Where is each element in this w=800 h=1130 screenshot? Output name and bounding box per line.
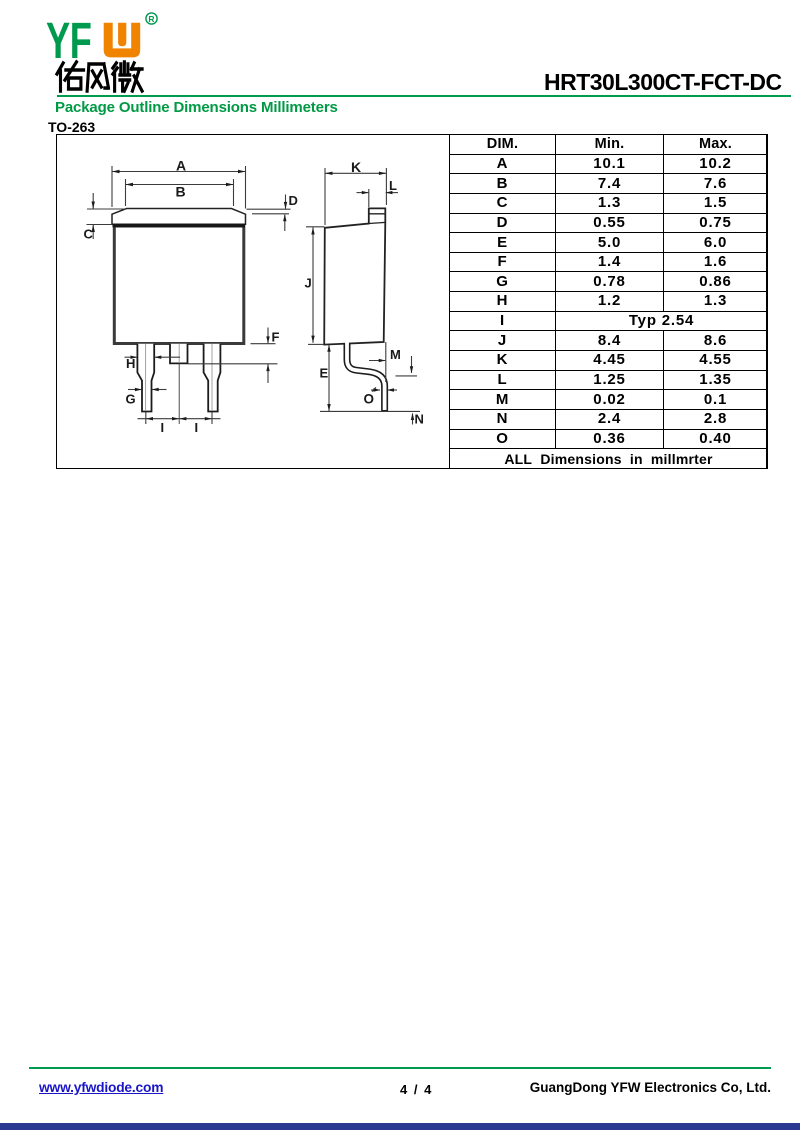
arrowheads M — [379, 359, 386, 362]
微 — [113, 63, 117, 91]
section heading — [55, 99, 338, 116]
dimension J — [306, 226, 325, 228]
footer website link — [39, 1080, 163, 1095]
arrowheads D — [284, 202, 287, 209]
dimension M — [385, 342, 387, 382]
dimension K — [324, 168, 326, 225]
registered mark — [146, 13, 157, 24]
风 — [87, 64, 108, 91]
orange W glyph — [104, 23, 141, 58]
front view body — [114, 226, 244, 344]
dimension C — [87, 208, 126, 210]
svg-text:C: C — [84, 227, 94, 242]
svg-text:K: K — [351, 159, 361, 175]
side view body — [324, 208, 385, 344]
dimension A — [111, 166, 113, 207]
arrowheads G — [135, 388, 142, 391]
pin 3 (right) — [204, 344, 221, 412]
dimension E — [308, 343, 324, 345]
drawing frame box — [56, 134, 767, 469]
pin 1 (left) — [137, 344, 154, 412]
dimension F — [251, 343, 276, 345]
TO-263 — [48, 119, 95, 135]
arrowheads B — [126, 183, 134, 186]
arrowheads C — [92, 202, 95, 209]
arrowheads L — [362, 191, 369, 194]
arrowheads A — [112, 170, 120, 173]
page number — [400, 1082, 433, 1097]
dimensions table — [449, 134, 768, 469]
svg-text:B: B — [176, 184, 186, 200]
arrowheads I — [146, 417, 153, 420]
svg-text:N: N — [415, 412, 424, 427]
dimension H — [125, 356, 138, 358]
logo text YF — [46, 19, 96, 67]
dimension D — [247, 208, 291, 210]
svg-text:O: O — [364, 392, 375, 407]
svg-text:G: G — [126, 392, 136, 407]
svg-text:M: M — [390, 347, 401, 362]
arrowheads E — [327, 345, 330, 352]
header green rule — [57, 95, 791, 97]
side tab inner line — [369, 213, 386, 215]
dimension G — [128, 389, 142, 391]
arrowheads K — [325, 172, 333, 175]
svg-text:D: D — [289, 193, 298, 208]
arrowheads F — [266, 336, 269, 343]
dimension B — [125, 179, 127, 206]
footer green rule — [29, 1067, 771, 1069]
arrowhead N — [411, 413, 414, 420]
dimension L — [357, 192, 369, 194]
dimension I — [145, 412, 147, 424]
svg-text:J: J — [305, 276, 312, 291]
arrowheads J — [311, 227, 314, 234]
gull-wing lead — [347, 344, 385, 412]
bottom blue bar — [0, 1123, 800, 1130]
svg-text:L: L — [389, 178, 397, 193]
front body top dark band — [113, 224, 246, 228]
company name — [530, 1080, 771, 1095]
part number HRT30L300CT-FCT-DC — [544, 69, 784, 96]
front view tab cap — [112, 209, 246, 225]
svg-text:F: F — [272, 330, 280, 345]
arrowheads H — [131, 356, 138, 359]
dimension O — [371, 389, 380, 391]
dimension N — [412, 414, 414, 425]
arrowheads O — [374, 388, 381, 391]
svg-text:I: I — [195, 420, 199, 435]
chinese chars 佑风微 (hand drawn) — [57, 62, 142, 91]
svg-text:E: E — [320, 366, 329, 381]
pin 2 (middle stub) — [170, 344, 188, 364]
佑 — [57, 63, 63, 91]
svg-text:A: A — [176, 158, 186, 174]
svg-text:I: I — [161, 420, 165, 435]
svg-text:H: H — [126, 356, 135, 371]
